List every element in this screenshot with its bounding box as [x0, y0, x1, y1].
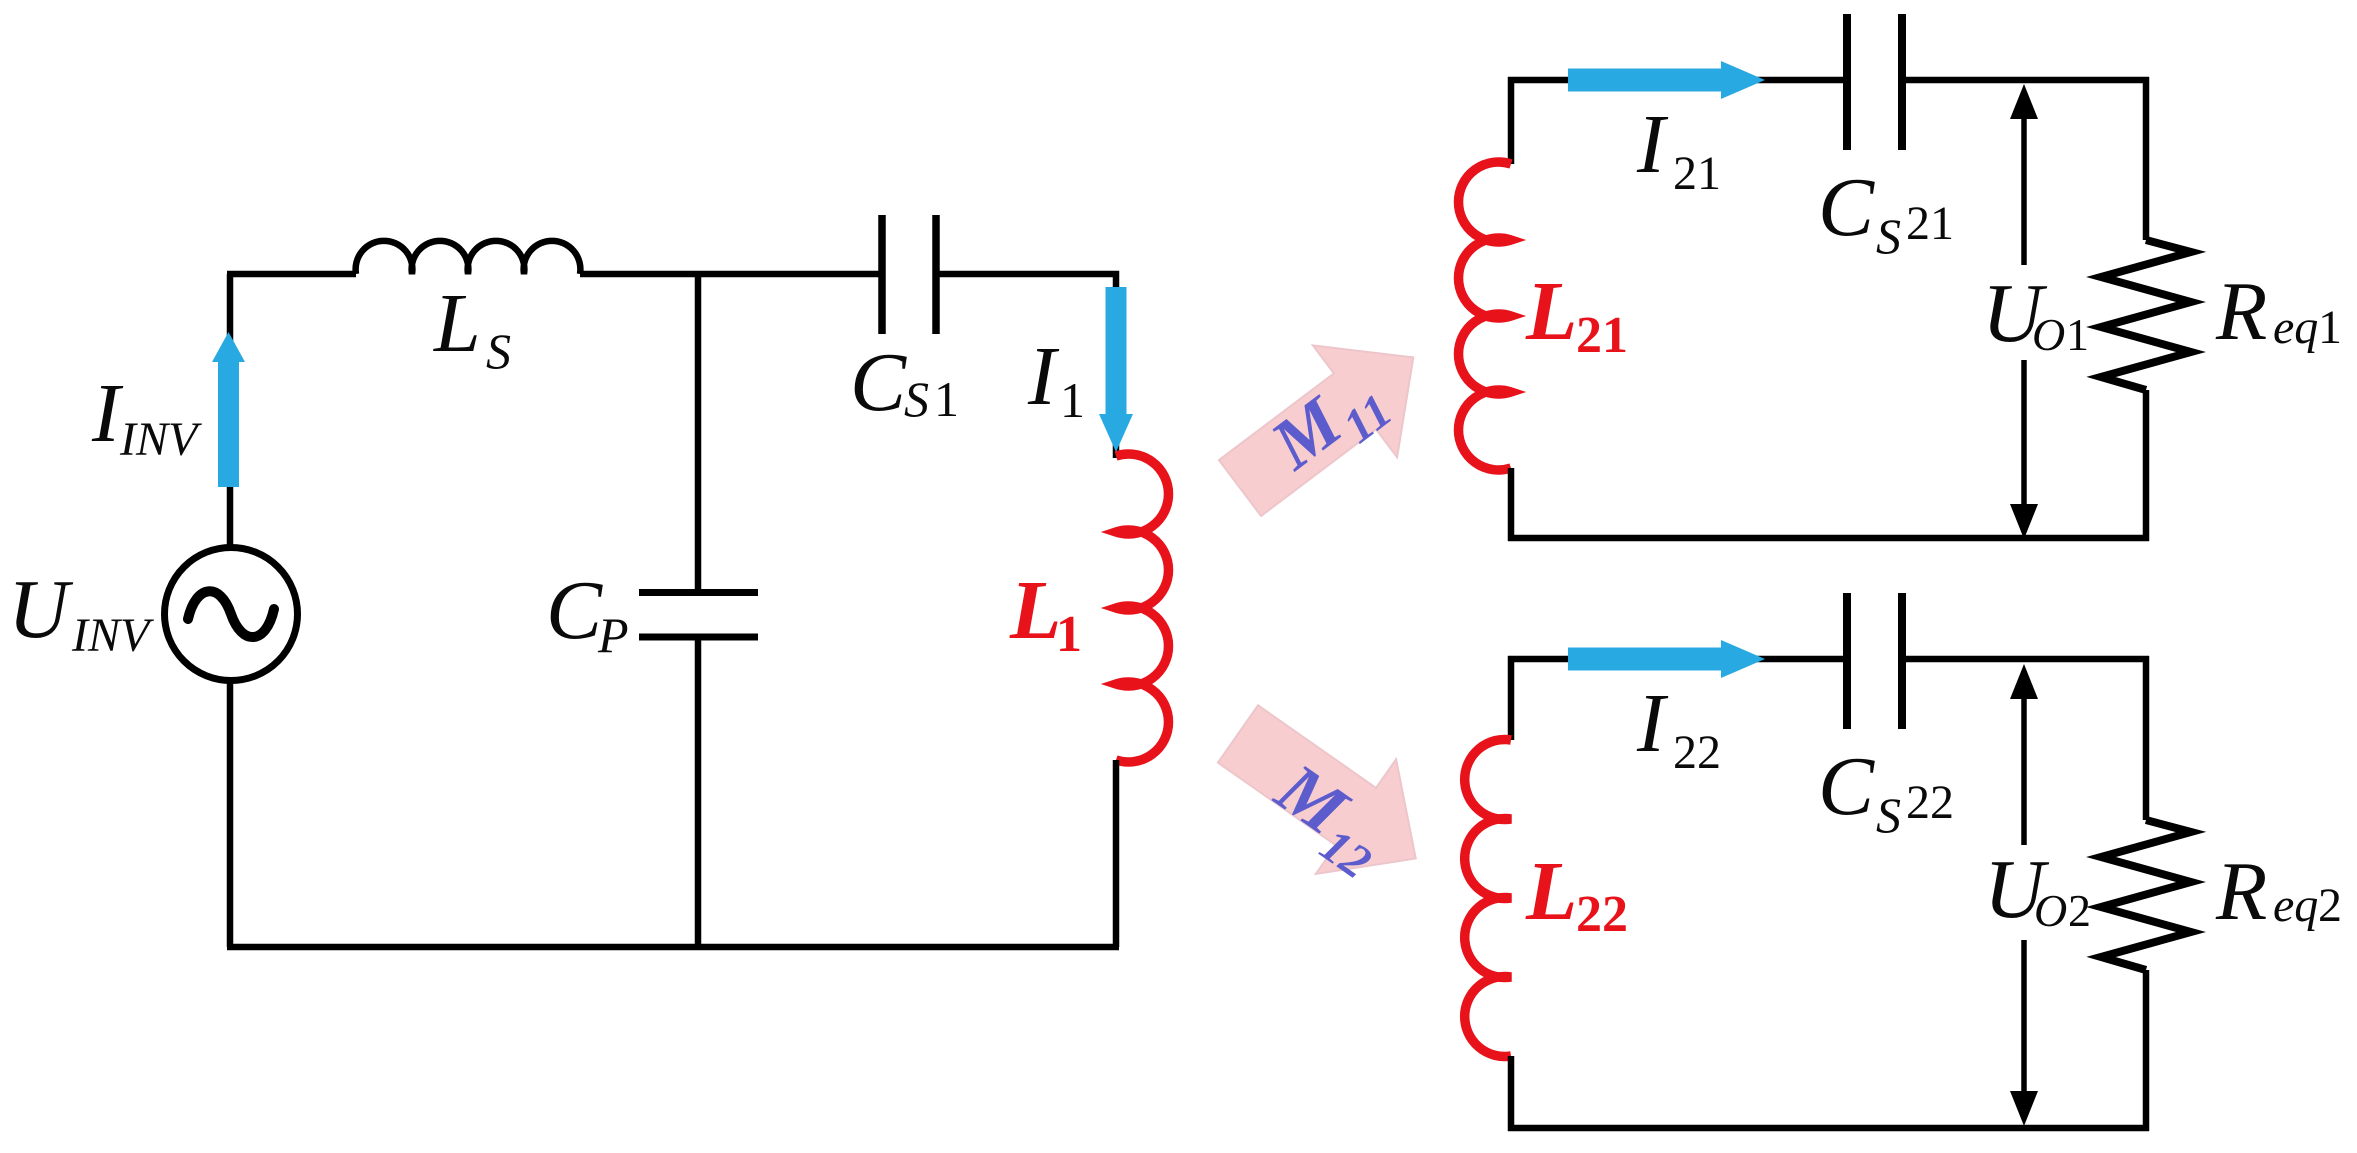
svg-text:2: 2: [2318, 879, 2342, 932]
svg-text:INV: INV: [119, 413, 202, 466]
wire right vertical below resistor: [2143, 970, 2150, 1131]
wire cap to corner: [1904, 656, 2149, 663]
wire left vertical above L22: [1508, 656, 1515, 740]
svg-text:S: S: [1876, 208, 1901, 264]
svg-text:22: 22: [1576, 886, 1628, 943]
voltage arrow UO2: [2010, 664, 2038, 1126]
wire bottom: [1508, 1125, 2149, 1132]
svg-text:eq: eq: [2273, 301, 2318, 354]
voltage source U_INV: [165, 548, 298, 681]
capacitor CS22: [1843, 593, 1851, 729]
inductor LS: [356, 241, 581, 274]
svg-text:eq: eq: [2273, 879, 2318, 932]
svg-text:22: 22: [1673, 726, 1721, 779]
svg-text:I: I: [1636, 98, 1669, 191]
wire CP branch upper: [695, 274, 702, 590]
svg-text:21: 21: [1906, 197, 1954, 250]
wire CS1 to corner: [939, 274, 1116, 458]
svg-text:C: C: [1818, 740, 1875, 833]
capacitor CS1: [878, 215, 886, 334]
svg-text:I: I: [1636, 677, 1669, 770]
current arrow IINV: [212, 332, 245, 487]
svg-text:21: 21: [1673, 147, 1721, 200]
inductor L21: [1459, 162, 1511, 470]
wire top horizontal to LS: [227, 271, 356, 278]
svg-text:S: S: [1876, 787, 1901, 843]
svg-text:21: 21: [1576, 307, 1628, 364]
svg-text:R: R: [2215, 845, 2267, 938]
label M11: [1256, 353, 1402, 495]
mutual coupling arrow M12: [1198, 677, 1456, 916]
svg-text:L: L: [1525, 265, 1577, 358]
svg-text:L: L: [433, 277, 481, 370]
svg-text:U: U: [8, 563, 74, 656]
wire below source: [227, 680, 234, 947]
svg-text:S: S: [904, 371, 929, 427]
inductor L1: [1116, 454, 1168, 762]
capacitor CP: [639, 589, 758, 596]
current arrow I21: [1568, 61, 1765, 99]
svg-text:S: S: [486, 323, 511, 379]
wire right vertical above resistor: [2143, 656, 2150, 820]
resistor Req2: [2101, 820, 2191, 970]
svg-text:1: 1: [1060, 372, 1085, 428]
wire LS to CS1: [580, 271, 881, 278]
wire top: [1508, 77, 1845, 84]
svg-text:R: R: [2215, 265, 2267, 358]
wire right vertical below resistor: [2143, 390, 2150, 541]
wire CP branch lower: [695, 640, 702, 947]
svg-text:2: 2: [2068, 885, 2091, 936]
wire top-left vertical: [227, 274, 234, 549]
svg-text:INV: INV: [71, 609, 154, 662]
svg-text:L: L: [1009, 564, 1061, 657]
current arrow I1: [1099, 287, 1133, 452]
svg-text:C: C: [1818, 161, 1875, 254]
wire right vertical above resistor: [2143, 77, 2150, 240]
voltage arrow UO1: [2010, 84, 2038, 539]
svg-text:C: C: [850, 336, 907, 429]
wire left vertical below L22: [1508, 1056, 1515, 1131]
wire left vertical below L21: [1508, 468, 1515, 541]
svg-text:1: 1: [2318, 301, 2342, 354]
svg-text:C: C: [546, 564, 603, 657]
resistor Req1: [2101, 240, 2191, 390]
wire top: [1508, 656, 1845, 663]
svg-text:L: L: [1525, 845, 1577, 938]
label M12: [1255, 748, 1403, 890]
svg-text:1: 1: [2066, 309, 2089, 360]
svg-text:1: 1: [934, 371, 959, 427]
svg-text:O: O: [2034, 885, 2067, 936]
capacitor CS21: [1843, 14, 1851, 150]
svg-text:I: I: [1027, 330, 1060, 423]
wire bottom: [227, 944, 1119, 951]
svg-text:1: 1: [1056, 606, 1082, 663]
mutual coupling arrow M11: [1198, 302, 1456, 544]
wire cap to corner: [1904, 77, 2149, 84]
wire bottom: [1508, 535, 2149, 542]
wire left vertical above L21: [1508, 77, 1515, 164]
svg-text:22: 22: [1906, 776, 1954, 829]
current arrow I22: [1568, 640, 1765, 678]
svg-text:O: O: [2032, 309, 2065, 360]
inductor L22: [1465, 740, 1511, 1057]
svg-text:P: P: [597, 607, 629, 663]
wire below L1: [1113, 760, 1120, 947]
